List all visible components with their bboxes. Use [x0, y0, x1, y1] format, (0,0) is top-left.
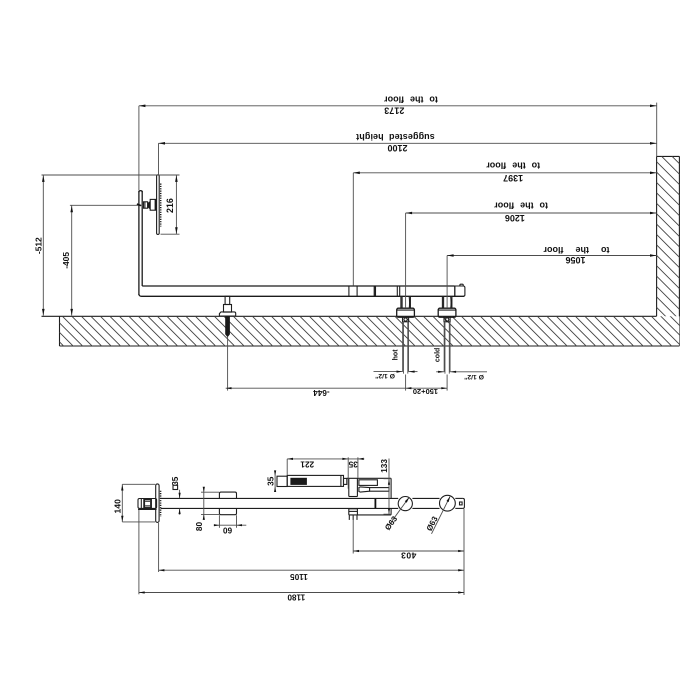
- svg-text:1180: 1180: [287, 593, 305, 602]
- anchor threaded bolt (into wall): [225, 316, 230, 337]
- svg-text:140: 140: [113, 499, 123, 514]
- plan: slide bar tube: [161, 497, 398, 499]
- plan: bar end cap: [463, 498, 465, 508]
- svg-text:to the floor: to the floor: [384, 95, 438, 105]
- shower column riser pipe (vertical): [138, 191, 140, 295]
- shower head spray face (dotted): [160, 184, 162, 227]
- dim -405 (head arm to wall): [71, 205, 73, 315]
- cold supply pipe (double wall): [443, 322, 445, 372]
- cold valve rosette nut: [438, 308, 456, 317]
- dim 133 (mixer block): [388, 459, 390, 515]
- leader circle2: [432, 496, 451, 534]
- svg-text:suggested height: suggested height: [356, 132, 435, 142]
- svg-text:35: 35: [266, 476, 275, 486]
- svg-text:Ø 1/2": Ø 1/2": [375, 372, 395, 379]
- dim 1/2 inch cold: [436, 371, 444, 373]
- leader circle1: [391, 497, 409, 522]
- svg-text:1206: 1206: [505, 213, 525, 223]
- svg-text:1105: 1105: [290, 572, 308, 581]
- hot valve base square: [403, 317, 409, 322]
- plan: shower head (edge view capsule): [156, 484, 159, 523]
- bar end cap with set-screw nub: [454, 286, 456, 296]
- svg-text:hot: hot: [393, 349, 400, 361]
- dim square 35 (tube): [179, 490, 181, 498]
- dim 1180: [138, 510, 140, 595]
- plan: mixer block: [347, 477, 391, 479]
- plan: handshower: [277, 476, 287, 486]
- plan: control circle 2 (diam 63): [440, 495, 456, 511]
- svg-text:to the floor: to the floor: [543, 245, 609, 255]
- dim 1397 to the floor: [353, 172, 656, 174]
- handshower nub: [344, 478, 347, 484]
- dim 2173 to the floor: [139, 105, 657, 107]
- svg-text:80: 80: [195, 522, 204, 532]
- svg-text:1397: 1397: [503, 173, 523, 183]
- shower slide bar (horizontal): [142, 285, 455, 287]
- plan: head spray face dotted: [160, 491, 162, 517]
- dim 1056 to the floor: [447, 255, 656, 257]
- svg-text:35: 35: [171, 476, 180, 486]
- svg-text:150+20: 150+20: [413, 387, 438, 396]
- svg-text:35: 35: [348, 460, 358, 469]
- svg-text:-512: -512: [33, 237, 43, 254]
- dim -512 (head face to wall): [42, 175, 44, 316]
- dim 1206 to the floor: [406, 212, 657, 214]
- hot valve rosette nut: [397, 308, 415, 317]
- svg-text:to the floor: to the floor: [494, 201, 548, 211]
- svg-text:cold: cold: [434, 348, 441, 362]
- cold water valve body: [441, 296, 443, 308]
- dim 150+20 (hot-cold spacing): [405, 375, 407, 391]
- plan: control circle 1 (diam 63): [398, 497, 412, 511]
- floor slab (hatched vertical bar, right): [489, 150, 700, 346]
- dim 1/2 inch hot: [374, 371, 403, 373]
- hot water valve body: [400, 296, 402, 308]
- dim -644 (anchor to hot inlet): [227, 337, 229, 391]
- bar joints: [348, 286, 350, 296]
- plan: arm joint block: [144, 500, 152, 508]
- wall anchor flange: [219, 312, 235, 316]
- wall band (hatched horizontal band): [60, 316, 680, 346]
- svg-text:Ø 1/2": Ø 1/2": [464, 373, 484, 380]
- svg-text:2100: 2100: [387, 143, 407, 153]
- cold valve base square: [444, 317, 450, 322]
- dim 403: [352, 516, 354, 554]
- dim 1105: [158, 523, 160, 572]
- dim 2100 suggested height: [159, 142, 657, 144]
- wall anchor stem: [225, 296, 230, 304]
- dim 60 (slider width): [214, 524, 246, 526]
- plan: slider with handle: [219, 492, 236, 498]
- svg-text:60: 60: [223, 526, 233, 535]
- svg-text:-405: -405: [61, 252, 71, 269]
- wall anchor block: [224, 305, 232, 313]
- dim 221 (handshower): [287, 458, 348, 460]
- svg-text:221: 221: [300, 459, 314, 468]
- svg-text:1056: 1056: [565, 255, 585, 265]
- handshower grip hatch: [290, 478, 307, 485]
- dim 140 (head): [121, 484, 123, 522]
- dim 35 (hook offset): [348, 458, 364, 460]
- dim 216 (shower head size): [175, 175, 177, 234]
- svg-text:2173: 2173: [384, 105, 404, 115]
- svg-text:-644: -644: [313, 388, 330, 397]
- svg-text:133: 133: [380, 459, 389, 473]
- svg-text:to the floor: to the floor: [486, 161, 540, 171]
- plan: wall flange / arm: [138, 499, 157, 509]
- svg-text:403: 403: [401, 551, 417, 561]
- dim 80 (slider): [203, 487, 205, 519]
- mixer block lower stubs: [348, 515, 350, 520]
- svg-text:216: 216: [165, 198, 175, 213]
- shower head plate: [157, 175, 160, 235]
- plan: tube joint mark: [374, 499, 376, 508]
- hot supply pipe (double wall): [402, 322, 404, 372]
- dim 35 (handshower width): [274, 471, 276, 492]
- shower head arm fittings: [144, 202, 148, 208]
